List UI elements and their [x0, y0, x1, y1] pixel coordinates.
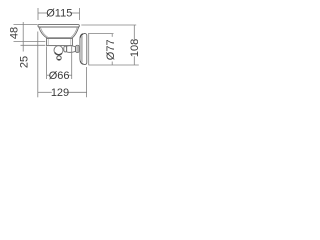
dim O115 line [38, 12, 47, 14]
dim 48 top ext [14, 24, 38, 26]
bowl left edge [39, 27, 47, 38]
dim O66 ext left [46, 47, 48, 80]
dim O77 line [111, 34, 113, 37]
rosette dark top [80, 34, 83, 38]
bowl left inner [40, 27, 48, 37]
band shading right [70, 39, 72, 45]
dim 108 top ext [81, 24, 136, 26]
dim bottom shared ext [89, 64, 139, 66]
bowl right edge [72, 27, 79, 38]
arm end collar [76, 45, 79, 52]
rosette profile [80, 34, 87, 65]
ball hub [54, 46, 63, 55]
dish rim outer [38, 25, 79, 27]
svg-text:Ø66: Ø66 [49, 70, 70, 82]
dim 48 bottom ext [14, 41, 46, 43]
finial drop [57, 56, 61, 60]
arm collar ring [64, 46, 67, 52]
svg-text:48: 48 [9, 27, 21, 39]
dim 108 line [133, 25, 135, 40]
svg-text:25: 25 [18, 56, 30, 68]
bowl bottom line [48, 37, 72, 39]
svg-text:108: 108 [129, 39, 141, 57]
dim 129 ext right [86, 67, 88, 97]
band shading left [47, 39, 49, 45]
svg-text:Ø115: Ø115 [46, 7, 72, 19]
dim O115 ext left [37, 8, 39, 20]
dim O115 ext right [79, 8, 81, 20]
bowl right inner [71, 27, 77, 37]
dim O77 top ext [88, 33, 114, 35]
rosette shading [80, 37, 82, 62]
dim 129 ext left [37, 32, 39, 98]
dim 129 line [38, 91, 52, 93]
dim O66 line [47, 74, 50, 76]
arm barrel [67, 46, 76, 53]
band O66 cylinder [47, 38, 73, 45]
dim 25 bottom ext [21, 44, 46, 46]
dim 48/25 line [22, 22, 24, 52]
svg-text:129: 129 [51, 87, 69, 99]
dim O66 ext right [71, 47, 73, 80]
ball shading [55, 53, 62, 55]
wall line [88, 34, 90, 65]
svg-text:Ø77: Ø77 [105, 39, 117, 60]
